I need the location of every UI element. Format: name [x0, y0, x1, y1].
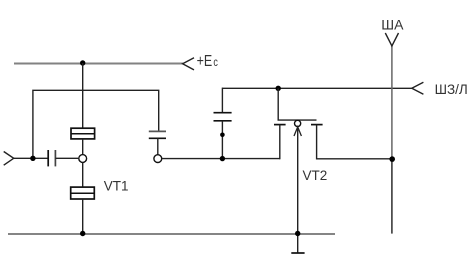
- wire SHA bus vertical (lower): [391, 159, 393, 234]
- wire feedback loop (left down, top across, right down to C2): [33, 90, 159, 158]
- node junction dot on +Ec rail: [80, 60, 85, 65]
- wire C1 to VT1 gate electrode: [55, 157, 78, 159]
- terminal arrow SHA (open, pointing down to bus): [385, 33, 398, 46]
- wire VT2 left stem to source line: [279, 125, 281, 160]
- wire C2 to circle electrode 2: [157, 138, 159, 154]
- svg-text:VT2: VT2: [303, 168, 328, 183]
- wire top +Ec rail: [14, 63, 183, 65]
- wire input to C1: [14, 157, 49, 159]
- ground bar: [291, 252, 304, 254]
- transistor VT1 upper element (split rectangle): [71, 128, 95, 139]
- terminal input arrow left: [4, 152, 14, 166]
- node junction dot VT1/bottom rail: [80, 231, 85, 236]
- terminal arrow SHZ/L: [412, 82, 424, 94]
- wire VT2 drain feed from SHZ/L dot down to gate: [277, 88, 279, 120]
- wire SHZ/L bus line: [222, 87, 411, 89]
- node junction dot substrate/bottom rail: [295, 231, 300, 236]
- node junction dot input/loop: [30, 156, 35, 161]
- wire from +Ec rail down to VT1 drain: [82, 63, 84, 129]
- wire VT2 substrate stem from ground: [297, 127, 299, 253]
- svg-text:ШЗ/Л: ШЗ/Л: [435, 82, 468, 97]
- wire VT1 source to bottom rail: [82, 199, 84, 234]
- capacitor C2 (loop to VT1 gate node): [149, 131, 166, 138]
- arrow substrate (open, pointing up): [294, 127, 301, 136]
- transistor VT1 lower element (split rectangle): [71, 187, 95, 199]
- node electrode circle 2: [154, 155, 162, 163]
- wire C3 down to source node: [221, 121, 223, 159]
- wire SHA bus vertical (upper): [391, 45, 393, 159]
- node junction dot VT2 drain on SHZ/L: [276, 86, 281, 91]
- svg-text:+Ec: +Ec: [197, 53, 218, 71]
- node junction dot VT2 source line / SHA bus: [389, 156, 395, 162]
- transistor VT2 right channel bar: [311, 124, 323, 126]
- node small dot on C3 wire: [220, 133, 225, 138]
- transistor VT1 electrode circle: [79, 155, 87, 163]
- wire circle 2 to VT2 source: [162, 158, 280, 160]
- wire electrode circle to VT1 lower element: [82, 162, 84, 187]
- transistor VT2 left channel bar: [274, 124, 286, 126]
- transistor VT2 gate line: [278, 119, 317, 121]
- capacitor C1 (input coupling): [48, 150, 55, 166]
- terminal arrow +Ec: [183, 58, 194, 70]
- capacitor C3: [214, 113, 232, 121]
- svg-text:VT1: VT1: [104, 178, 129, 193]
- svg-text:ША: ША: [381, 17, 404, 33]
- wire VT2 right stem down and to SHA bus: [317, 125, 393, 159]
- transistor VT2 substrate circle: [295, 120, 301, 126]
- wire SHZ/L corner down to C3: [221, 88, 223, 113]
- node junction dot C3/source wire: [220, 156, 225, 161]
- wire bottom common rail: [8, 233, 335, 235]
- wire VT1 upper element to electrode circle: [82, 139, 84, 154]
